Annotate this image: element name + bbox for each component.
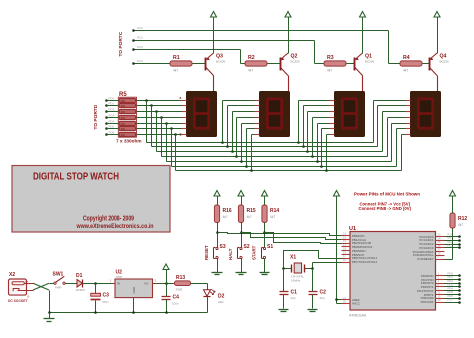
svg-text:22p: 22p xyxy=(291,296,296,300)
svg-text:a: a xyxy=(180,96,182,100)
svg-text:PC0: PC0 xyxy=(137,26,143,30)
svg-text:4k7: 4k7 xyxy=(458,223,463,227)
svg-text:GND: GND xyxy=(132,286,136,294)
svg-text:PC4: PC4 xyxy=(137,59,143,63)
svg-text:LED: LED xyxy=(218,300,223,304)
svg-text:330: 330 xyxy=(121,128,126,131)
svg-text:4k7: 4k7 xyxy=(247,215,252,219)
svg-text:R12: R12 xyxy=(458,216,467,222)
svg-text:R14: R14 xyxy=(270,208,279,214)
svg-text:BC556: BC556 xyxy=(291,60,301,64)
svg-text:330: 330 xyxy=(121,111,126,114)
svg-text:(+: (+ xyxy=(26,279,29,283)
svg-text:X2: X2 xyxy=(9,272,15,278)
svg-text:330: 330 xyxy=(121,123,126,126)
svg-text:4k7: 4k7 xyxy=(173,69,178,73)
svg-text:C4: C4 xyxy=(173,295,180,301)
svg-text:R1: R1 xyxy=(173,55,180,61)
svg-text:DIGITAL STOP WATCH: DIGITAL STOP WATCH xyxy=(33,172,119,183)
svg-text:R4: R4 xyxy=(403,55,410,61)
svg-text:PD4: PD4 xyxy=(109,119,115,123)
svg-text:Power PINs of MCU Not Shown: Power PINs of MCU Not Shown xyxy=(354,191,420,196)
svg-text:TO PORTD: TO PORTD xyxy=(93,104,99,129)
svg-text:R5: R5 xyxy=(119,92,127,98)
svg-text:PD7/AIN1: PD7/AIN1 xyxy=(421,300,434,304)
svg-text:C1: C1 xyxy=(291,290,298,296)
svg-text:IN: IN xyxy=(117,282,120,286)
svg-text:PC1: PC1 xyxy=(137,36,143,40)
svg-text:R3: R3 xyxy=(327,55,334,61)
svg-text:(-: (- xyxy=(28,295,30,299)
svg-text:330: 330 xyxy=(121,117,126,120)
svg-text:4k7: 4k7 xyxy=(223,215,228,219)
svg-text:BC556: BC556 xyxy=(440,60,450,64)
svg-text:U1: U1 xyxy=(349,226,356,232)
svg-text:330: 330 xyxy=(121,105,126,108)
svg-text:PC6/RESET: PC6/RESET xyxy=(417,257,433,261)
svg-text:S3: S3 xyxy=(220,244,226,250)
svg-text:1N4007: 1N4007 xyxy=(76,288,86,292)
svg-text:7 x 330ohm: 7 x 330ohm xyxy=(116,139,142,144)
svg-text:HALT: HALT xyxy=(228,248,233,260)
svg-text:PB7/TOSC2/XTAL2: PB7/TOSC2/XTAL2 xyxy=(352,260,378,264)
svg-text:D1: D1 xyxy=(76,273,83,279)
svg-text:Copyright 2008- 2009: Copyright 2008- 2009 xyxy=(83,215,134,222)
svg-text:D2: D2 xyxy=(218,294,225,300)
svg-text:R15: R15 xyxy=(247,208,256,214)
svg-text:R2: R2 xyxy=(248,55,255,61)
svg-text:R13: R13 xyxy=(176,275,185,281)
svg-text:330: 330 xyxy=(121,134,126,137)
svg-text:RESET: RESET xyxy=(204,245,209,260)
svg-text:C3: C3 xyxy=(103,293,110,299)
svg-text:4k7: 4k7 xyxy=(403,69,408,73)
svg-text:DC SOCKET: DC SOCKET xyxy=(8,299,27,303)
svg-text:4k7: 4k7 xyxy=(327,69,332,73)
svg-text:BC556: BC556 xyxy=(365,60,375,64)
svg-text:S1: S1 xyxy=(267,244,273,250)
svg-text:AVCC: AVCC xyxy=(352,302,360,306)
svg-text:SW1: SW1 xyxy=(53,272,64,278)
svg-text:330: 330 xyxy=(121,100,126,103)
svg-text:BC556: BC556 xyxy=(216,60,226,64)
svg-text:22p: 22p xyxy=(320,296,325,300)
svg-text:ATMEGA8: ATMEGA8 xyxy=(349,314,366,318)
svg-text:16MHz: 16MHz xyxy=(291,278,301,282)
svg-text:START: START xyxy=(252,245,257,260)
svg-text:TO PORTC: TO PORTC xyxy=(118,31,124,56)
svg-text:PD1: PD1 xyxy=(109,101,115,105)
svg-text:4k7: 4k7 xyxy=(248,69,253,73)
svg-text:4k7: 4k7 xyxy=(270,215,275,219)
svg-text:PD5: PD5 xyxy=(109,124,115,128)
svg-text:100n: 100n xyxy=(172,301,179,305)
svg-text:470u: 470u xyxy=(102,300,109,304)
svg-text:C2: C2 xyxy=(320,290,327,296)
svg-text:7805: 7805 xyxy=(116,275,123,279)
svg-text:330R: 330R xyxy=(176,288,183,292)
svg-text:Connect PIN8 -> GND (0V): Connect PIN8 -> GND (0V) xyxy=(359,206,412,211)
svg-text:R16: R16 xyxy=(223,208,232,214)
svg-text:PD7: PD7 xyxy=(448,298,454,302)
svg-text:PC2: PC2 xyxy=(137,45,143,49)
svg-text:PWR: PWR xyxy=(55,286,62,290)
svg-text:PD2: PD2 xyxy=(109,107,115,111)
svg-text:PD0: PD0 xyxy=(109,96,115,100)
svg-text:PD3: PD3 xyxy=(109,113,115,117)
svg-text:www.eXtremeElectronics.co.in: www.eXtremeElectronics.co.in xyxy=(76,223,154,230)
svg-text:X1: X1 xyxy=(290,255,296,261)
svg-text:PD6: PD6 xyxy=(109,130,115,134)
svg-text:S2: S2 xyxy=(244,244,250,250)
svg-text:VO: VO xyxy=(144,282,149,286)
